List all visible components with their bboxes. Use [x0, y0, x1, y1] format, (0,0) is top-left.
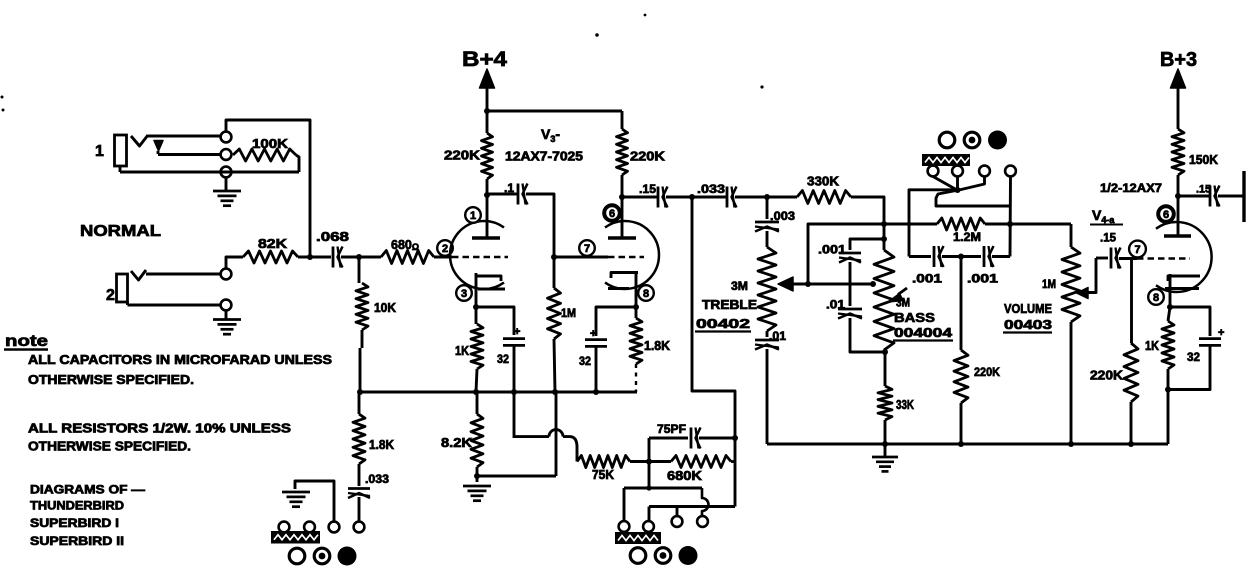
wire jack2 terminal up to 82K	[226, 257, 243, 269]
wire volume top	[1070, 224, 1073, 247]
node jack1 bottom terminal	[221, 167, 232, 178]
wire .01 to bass bottom	[850, 318, 885, 352]
resistor 1M	[548, 288, 561, 339]
wire .068 to 680	[341, 256, 381, 259]
note resistors line2	[28, 440, 191, 454]
svg-text:2: 2	[106, 287, 115, 304]
capacitor .01 bass	[838, 309, 862, 319]
B+3 arrow	[1171, 69, 1186, 129]
svg-text:1M: 1M	[561, 306, 576, 320]
indicator full left	[338, 547, 357, 566]
svg-text:32: 32	[497, 352, 509, 366]
node junction .068	[307, 254, 313, 260]
terminal block left	[271, 531, 320, 544]
svg-text:7: 7	[1134, 244, 1140, 256]
wire terminal C3	[676, 507, 679, 517]
indicator full center	[679, 546, 698, 565]
wire 8.2K to feedback column	[477, 475, 556, 478]
label .15 output	[1196, 184, 1211, 196]
wire treble pot to .01	[766, 331, 769, 337]
node jack1 top terminal	[221, 132, 232, 143]
svg-text:+: +	[590, 328, 596, 340]
note capacitors line2	[28, 373, 194, 387]
wire .033 to treble node	[735, 196, 767, 199]
potentiometer BASS 3M	[874, 250, 894, 350]
node 75PF right	[732, 435, 738, 441]
node 75K right	[646, 459, 652, 465]
wire 220K to plate V3B	[621, 175, 624, 238]
svg-text:220K: 220K	[444, 149, 480, 163]
wire 330K to bass node	[851, 197, 884, 250]
label 220K left	[444, 149, 480, 163]
label 2	[106, 287, 115, 304]
pin 1 V3A plate	[465, 207, 481, 223]
label 220K tone	[974, 365, 1000, 379]
wire 75PF to right node	[699, 437, 735, 440]
wire 220K tone top	[960, 257, 963, 351]
svg-text:33K: 33K	[896, 398, 914, 412]
wire right node down	[731, 438, 735, 507]
speck	[1, 14, 764, 112]
label 1.8K input	[369, 438, 394, 452]
indicator open left	[289, 548, 305, 564]
pin 3 V3A cathode	[456, 285, 472, 301]
svg-text:6: 6	[1163, 209, 1169, 221]
resistor 10K	[356, 283, 368, 330]
indicator open upper	[939, 132, 955, 148]
capacitor .15 volume	[1111, 248, 1121, 269]
label 00402	[695, 317, 751, 332]
capacitor .003 treble	[755, 222, 779, 232]
wire .15 to .033	[666, 196, 726, 199]
pin 7 V3B grid	[579, 240, 595, 256]
wire wiper riser	[808, 224, 884, 284]
wire jack1 arrow to terminal	[158, 151, 221, 155]
svg-text:1M: 1M	[1042, 277, 1056, 291]
wire cathode V4 to 1K	[1168, 307, 1170, 321]
label .001 bass	[818, 243, 846, 257]
svg-text:1K: 1K	[1145, 339, 1159, 353]
node terminal U3	[979, 166, 990, 177]
wire grid V4 dashed	[1137, 257, 1190, 259]
label 75K	[592, 468, 614, 482]
resistor 330K	[797, 191, 851, 204]
svg-text:330K: 330K	[807, 175, 839, 189]
wire .15 out to edge	[1218, 195, 1244, 198]
node bus 32B	[593, 389, 599, 395]
wire jack1 bottom	[120, 166, 299, 172]
node bass 1.2M	[881, 221, 887, 227]
node jack2 bottom terminal	[221, 300, 232, 311]
svg-text:100K: 100K	[252, 137, 288, 151]
wire bus branch down	[513, 392, 516, 438]
wire 220K V4 top	[1130, 259, 1133, 344]
wire 1M top	[553, 257, 556, 288]
wire junction to 10K	[358, 257, 361, 283]
wire cathode bus	[359, 391, 637, 394]
node terminal L1	[279, 522, 290, 533]
node terminal U1	[928, 166, 939, 177]
svg-text:+: +	[514, 326, 520, 338]
wire bass to 33K	[884, 352, 887, 386]
wire jack1 tip to terminal	[148, 135, 221, 138]
node bus 1K	[473, 389, 479, 395]
wire hop over feedback	[514, 430, 577, 462]
resistor 1.8K input	[353, 414, 365, 464]
node rail bass	[882, 441, 888, 447]
wire terminal L3 to ground	[295, 481, 334, 521]
label .001 left	[912, 272, 942, 286]
wire .001 mid	[942, 255, 981, 258]
pin 7 V4 grid	[1129, 241, 1146, 258]
wire 1.8K dashes to bus	[635, 364, 637, 392]
terminal block upper	[922, 154, 970, 166]
label NORMAL	[80, 223, 161, 240]
note capacitors line1	[28, 353, 332, 367]
wire terminal C1	[623, 488, 626, 521]
wire .033 to terminal	[358, 497, 361, 521]
wire plate V3A to cap .1	[484, 192, 517, 198]
resistor 1K V4	[1162, 321, 1174, 369]
node plate V4	[1175, 193, 1181, 199]
label VOLUME	[1004, 302, 1052, 316]
svg-text:1: 1	[95, 143, 104, 160]
note thunderbird	[30, 499, 124, 513]
capacitor .068	[333, 247, 343, 268]
capacitor .15 V3B	[658, 187, 668, 208]
resistor 1K V3A	[471, 324, 483, 369]
resistor 1.2M	[937, 218, 985, 230]
label .15 volume	[1100, 231, 1116, 245]
wire plate V4 to .15 out	[1178, 195, 1209, 198]
wire .033 node to 330K	[767, 196, 797, 199]
svg-text:32: 32	[1187, 350, 1200, 364]
wire cathode V3B to 32uF B	[596, 307, 636, 336]
label 330K	[807, 175, 839, 189]
wire bass cap stub	[850, 239, 884, 250]
node upper connector	[955, 187, 961, 193]
node plate V3B junction	[619, 194, 625, 200]
node terminal U4	[1005, 166, 1016, 177]
svg-text:2: 2	[442, 243, 448, 255]
capacitor 32uF V4	[1187, 327, 1224, 364]
node jack1 mid terminal	[221, 149, 232, 160]
capacitor .01 treble bottom	[755, 340, 779, 350]
volume wiper arrow	[1077, 258, 1097, 299]
node terminal C1	[619, 521, 630, 532]
svg-text:3: 3	[461, 288, 467, 300]
wire 220K top corner	[621, 111, 624, 129]
ground jack2	[213, 311, 241, 335]
note diagrams	[30, 483, 145, 497]
indicator half left	[314, 548, 330, 564]
label 1.8K V3B	[644, 339, 670, 353]
wire 33K to rail	[884, 420, 887, 444]
wire 8.2K to ground	[476, 467, 479, 482]
wire terminal U4 column	[1009, 177, 1012, 257]
node rail 220K tone	[958, 441, 964, 447]
wire terminal C2	[648, 507, 651, 522]
resistor 220K left	[482, 133, 493, 179]
wire terminal U1	[933, 177, 957, 191]
resistor 680K	[671, 456, 731, 468]
node rail 220K V4	[1128, 441, 1134, 447]
svg-text:8: 8	[643, 288, 649, 300]
resistor 33K	[878, 386, 892, 420]
svg-text:004004: 004004	[894, 326, 952, 340]
capacitor .001 right	[984, 246, 994, 267]
capacitor .033 coupling	[727, 187, 737, 208]
svg-text:ALL CAPACITORS IN MICROFARAD U: ALL CAPACITORS IN MICROFARAD UNLESS	[28, 353, 332, 367]
label .15 V3B	[639, 182, 656, 196]
svg-text:NORMAL: NORMAL	[80, 223, 161, 240]
wire 32uF B to bus	[595, 347, 598, 392]
label V4-a	[1090, 207, 1123, 225]
capacitor .001 left	[934, 246, 944, 267]
label 680 ohm	[391, 238, 419, 252]
capacitor .15 output	[1210, 186, 1220, 207]
capacitor .033 input	[348, 489, 370, 499]
B+4 rail	[484, 108, 622, 133]
label 00403	[1003, 318, 1052, 333]
svg-text:.01: .01	[769, 329, 786, 343]
svg-text:1.2M: 1.2M	[953, 230, 981, 244]
wire 1.2M left	[884, 223, 937, 226]
wire grid V3B dashed	[608, 256, 644, 258]
tube V4 envelope	[1156, 222, 1212, 292]
pin 8 V4 cathode	[1148, 289, 1164, 305]
ground left connector	[282, 492, 310, 507]
svg-text:.15: .15	[1100, 231, 1116, 245]
treble wiper arrow	[778, 277, 793, 291]
wire 1.2M right to volume	[985, 223, 1071, 226]
wire treble wiper line	[791, 283, 873, 286]
svg-text:12AX7-7025: 12AX7-7025	[505, 150, 583, 164]
svg-text:00402: 00402	[696, 317, 750, 331]
wire 32uF A to bus	[513, 346, 516, 392]
svg-text:.001: .001	[818, 243, 846, 257]
wire terminal C4 hop	[702, 488, 709, 516]
svg-text:THUNDERBIRD: THUNDERBIRD	[30, 499, 124, 513]
wire continuation edge	[1242, 171, 1245, 222]
capacitor .001 bass	[839, 253, 861, 263]
resistor 150K	[1172, 129, 1184, 175]
svg-text:8.2K: 8.2K	[441, 436, 472, 450]
potentiometer TREBLE 3M	[758, 247, 776, 331]
node grid V3B junction	[551, 254, 557, 260]
node junction 10K	[356, 254, 362, 260]
svg-text:.033: .033	[365, 472, 389, 486]
resistor 82K	[243, 251, 298, 263]
cathode V4	[1165, 274, 1200, 307]
wire .01 to ground rail	[766, 349, 769, 444]
wire wiper to .15	[1096, 257, 1108, 260]
node bus 10K	[357, 389, 363, 395]
label 10K	[374, 301, 396, 315]
wire 1M to bus	[554, 339, 555, 392]
wire .003 to treble pot	[766, 231, 769, 247]
svg-text:220K: 220K	[630, 150, 665, 164]
resistor 100K	[233, 149, 296, 161]
label .01 treble bottom	[769, 329, 786, 343]
node 1K 32uF junction	[1165, 387, 1171, 393]
wire grid V3A dashed	[452, 256, 508, 258]
svg-text:OTHERWISE SPECIFIED.: OTHERWISE SPECIFIED.	[28, 440, 191, 454]
svg-text:.001: .001	[967, 272, 998, 286]
label 1M	[561, 306, 576, 320]
svg-text:.033: .033	[697, 182, 725, 196]
wire 75PF line	[649, 437, 688, 440]
svg-text:10K: 10K	[374, 301, 396, 315]
capacitor 32uF B	[579, 328, 607, 368]
pin 2 V3A grid	[437, 240, 453, 256]
resistor 220K right	[617, 129, 628, 175]
wire upper node to U4 column	[936, 191, 1009, 207]
wire jack2 tip to terminal	[146, 273, 221, 276]
label 75PF	[657, 422, 686, 436]
wire volume to rail	[1070, 322, 1073, 444]
svg-text:1: 1	[470, 210, 476, 222]
wire 100K right end down	[296, 155, 299, 172]
svg-text:00403: 00403	[1004, 318, 1052, 332]
wire upper node left	[909, 190, 958, 257]
plate V4	[1164, 234, 1191, 237]
node bass bottom	[882, 349, 888, 355]
label 3M treble	[731, 279, 748, 293]
svg-text:.003: .003	[770, 209, 795, 223]
svg-text:1.8K: 1.8K	[369, 438, 394, 452]
node rail volume	[1068, 441, 1074, 447]
ground jack1	[213, 178, 241, 206]
label .003 treble	[770, 209, 795, 223]
node terminal L4	[354, 522, 365, 533]
label 1K V3A	[455, 344, 469, 358]
wire connector row2	[649, 505, 735, 508]
label 1/2-12AX7	[1100, 181, 1162, 195]
svg-text:+: +	[1218, 327, 1224, 339]
node terminal U2	[952, 166, 963, 177]
node 8.2K bottom	[474, 473, 480, 479]
svg-text:150K: 150K	[1189, 153, 1218, 167]
plate V3B	[608, 236, 636, 239]
wire bus to 8.2K	[476, 392, 479, 414]
wire 150K to plate V4	[1177, 175, 1180, 236]
indicator half upper	[964, 132, 980, 148]
wire feedback column	[555, 392, 558, 476]
node terminal L2	[304, 522, 315, 533]
plate V3A	[472, 236, 500, 239]
svg-text:8: 8	[1153, 292, 1159, 304]
svg-text:6: 6	[609, 208, 615, 220]
pin 6 V3B plate	[604, 205, 620, 221]
wire .001 to .01	[849, 262, 852, 306]
svg-text:75PF: 75PF	[657, 422, 686, 436]
wire 1K to rail	[1167, 369, 1170, 444]
terminal block center	[615, 532, 661, 544]
cathode V3B	[608, 273, 638, 308]
svg-text:VOLUME: VOLUME	[1004, 302, 1052, 316]
pin 6 V4 plate	[1158, 206, 1174, 222]
label B+4	[462, 48, 507, 71]
label 680K	[667, 469, 702, 483]
indicator full upper	[988, 131, 1007, 150]
wire 220K to plate V3A	[486, 179, 489, 238]
label 1M volume	[1042, 277, 1056, 291]
node 1.2M right	[1007, 221, 1013, 227]
capacitor 32uF A	[497, 326, 525, 366]
wire .1 to grid V3B	[526, 194, 554, 257]
svg-text:DIAGRAMS OF —: DIAGRAMS OF —	[30, 483, 145, 497]
wire cathode V3A to 32uF	[476, 307, 514, 335]
node 220K tap	[958, 254, 964, 260]
ground 8.2K	[463, 486, 491, 501]
wire terminal U3	[959, 177, 985, 191]
svg-text:3M: 3M	[731, 279, 748, 293]
label 3M bass	[896, 296, 910, 310]
wire 10K to bus	[360, 330, 362, 392]
svg-text:82K: 82K	[258, 237, 287, 251]
svg-text:680K: 680K	[667, 469, 702, 483]
capacitor .1	[518, 184, 528, 205]
svg-text:OTHERWISE SPECIFIED.: OTHERWISE SPECIFIED.	[28, 373, 194, 387]
svg-text:3M: 3M	[896, 296, 910, 310]
indicator open center	[630, 548, 646, 564]
label 220K right	[630, 150, 665, 164]
bass wiper arrow	[888, 288, 907, 302]
label 1K V4	[1145, 339, 1159, 353]
ground rail symbol	[872, 444, 898, 471]
wire connector row1	[624, 485, 702, 490]
wire bus to 1.8K	[358, 392, 361, 414]
label .001 right	[967, 272, 998, 286]
node wiper at bass pot	[870, 281, 876, 287]
wire 82K to junction	[298, 256, 331, 259]
wire 1.8K to .033	[358, 464, 361, 486]
label 1.2M	[953, 230, 981, 244]
resistor 680 ohm	[381, 251, 434, 264]
wire jack1 top to grid bus	[226, 120, 310, 255]
node bass cap stub	[881, 236, 887, 242]
wire grid V3B	[554, 256, 608, 259]
svg-text:220K: 220K	[1090, 369, 1123, 383]
wire 75K to 680K	[630, 460, 671, 463]
label 100K	[252, 137, 288, 151]
resistor 1.8K V3B	[630, 318, 642, 364]
potentiometer VOLUME 1M	[1062, 247, 1080, 322]
svg-text:B+3: B+3	[1160, 49, 1197, 71]
tube V3B envelope	[605, 221, 659, 289]
resistor 75K	[577, 456, 630, 468]
svg-text:.1: .1	[504, 181, 514, 195]
svg-text:7: 7	[584, 243, 590, 255]
wire 220K V4 to rail	[1130, 402, 1133, 444]
wire 32uF V4 down	[1168, 346, 1210, 390]
svg-text:1.8K: 1.8K	[644, 339, 670, 353]
resistor 8.2K	[471, 414, 483, 467]
wire cathode V4 to 32uF	[1170, 307, 1210, 336]
label 150K	[1189, 153, 1218, 167]
svg-text:220K: 220K	[974, 365, 1000, 379]
label .033 coupling	[697, 182, 725, 196]
wire ground rail	[767, 443, 1168, 446]
label 004004	[893, 326, 953, 341]
svg-text:1/2-12AX7: 1/2-12AX7	[1100, 181, 1162, 195]
node junction .033	[689, 194, 695, 200]
B+4 arrow	[480, 69, 495, 110]
wire 75K node to connector	[648, 462, 651, 489]
label 12AX7-7025	[505, 150, 583, 164]
label .033 input	[365, 472, 389, 486]
